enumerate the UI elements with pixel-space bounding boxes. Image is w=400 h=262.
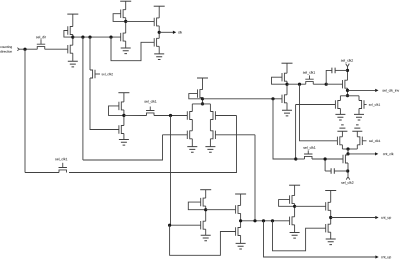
- wire vdd to P8: [286, 63, 288, 73]
- wire C2 to gate node: [324, 159, 326, 171]
- nmos N2: [121, 33, 126, 41]
- wire M5 to M6 gate node: [313, 83, 326, 85]
- pmos P7 latch right: [210, 111, 236, 119]
- wire P11 drain to node: [294, 204, 296, 217]
- wire keeper junction down: [273, 99, 296, 159]
- power vdd bar column5: [200, 189, 211, 191]
- wire P10 drain to row: [240, 213, 242, 227]
- output cnt_clk arrow: [348, 152, 394, 156]
- wire row down1 to cnt_up feedthrough: [264, 221, 376, 257]
- ground below MC1: [335, 114, 345, 120]
- power vdd bar column7: [289, 184, 300, 186]
- node col1 out: [71, 36, 74, 39]
- wire P3 drain to clk node: [158, 26, 160, 38]
- wire ground to MC4: [356, 131, 358, 137]
- wire vdd to P3: [158, 6, 160, 18]
- output cnt_up feedthrough arrow: [375, 255, 391, 259]
- ground below N2: [121, 48, 131, 54]
- wire N7 source to ground: [209, 139, 211, 147]
- wire bar to MC1: [339, 96, 341, 101]
- wire M8 to M7 gate: [312, 158, 343, 160]
- wire C1 right lead: [335, 69, 347, 71]
- wire P2 gate loop: [113, 14, 124, 22]
- node y159 left: [294, 157, 297, 160]
- label sel_clk1 of M4: [55, 158, 67, 161]
- label sel_clk2 of M2: [102, 73, 113, 76]
- wire P7 gate path: [69, 116, 237, 173]
- wire N1 source to ground: [72, 53, 74, 61]
- node net B left: [285, 83, 288, 86]
- node A junction 2: [88, 36, 91, 39]
- ground below N8: [282, 110, 292, 116]
- pmos P10: [236, 205, 241, 213]
- ground below N1: [68, 61, 78, 67]
- label sel_dir of M1: [36, 36, 46, 39]
- wire P6 drain to N6: [191, 120, 193, 131]
- wire P8 gate loop: [272, 77, 286, 84]
- wire P9 drain to node: [205, 206, 207, 221]
- node keeper net junction: [271, 97, 274, 100]
- pmos P3: [154, 18, 159, 26]
- wire M2 down to N4 gate: [90, 78, 119, 130]
- node M7 gate: [324, 157, 327, 160]
- label sel_clk1 of M3: [144, 100, 156, 103]
- output clk arrow: [159, 31, 182, 34]
- wire node A3 down to M2: [89, 37, 91, 70]
- wire MC1 source to ground: [339, 109, 341, 115]
- wire row down2 to N12 gate: [273, 221, 326, 251]
- pmos P2 diode-connected: [121, 10, 126, 18]
- output cnt_up arrow: [331, 216, 391, 220]
- node row down1: [262, 219, 265, 222]
- node row down2: [271, 219, 274, 222]
- power vdd bar column8: [325, 190, 336, 192]
- wire pair2 out down: [347, 149, 349, 155]
- pmos P4 diode-connected: [119, 102, 124, 110]
- node col7 out: [293, 205, 296, 208]
- node col5 out: [204, 208, 207, 211]
- node latch left gate: [169, 114, 172, 117]
- wire N6 source to ground: [191, 139, 193, 147]
- node counting direction junction: [23, 48, 26, 51]
- wire N3 source to ground: [158, 46, 160, 54]
- nmos MC2 dummy: [359, 100, 367, 108]
- nmos MC3 dummy: [337, 137, 342, 145]
- pmos P8 diode-connected: [282, 73, 287, 81]
- wire net B down to MC3 gate: [300, 84, 338, 141]
- pmos P1 diode-connected: [68, 26, 73, 34]
- ground below N12: [326, 239, 336, 245]
- wire N9 source to ground: [205, 229, 207, 235]
- net label counting direction line2: [0, 50, 12, 52]
- wire M3 to latch node: [154, 115, 187, 117]
- capacitor C2: [331, 168, 334, 174]
- node sel_clk2 top: [346, 69, 349, 72]
- nmos M7: [343, 155, 348, 163]
- wire node A2 down to M2: [82, 37, 84, 160]
- node clk out: [158, 31, 161, 34]
- wire col7 out to P12 gate: [295, 205, 326, 207]
- node keeper out: [201, 97, 204, 100]
- wire P4 gate loop: [109, 106, 123, 116]
- power vdd bar P8: [282, 62, 293, 64]
- ground above MC4 mirrored: [352, 125, 362, 131]
- node sel_clk_inv: [346, 89, 349, 92]
- wire node A horizontal: [73, 36, 121, 38]
- transistor M1 pass gate: [37, 39, 45, 49]
- wire latch node down rail: [170, 116, 172, 226]
- wire vdd to P2: [125, 1, 127, 10]
- nmos M6: [343, 80, 348, 88]
- wire latch top bar: [192, 103, 210, 105]
- wire P7 drain to N7: [209, 120, 211, 131]
- wire P11 gate loop: [279, 200, 294, 207]
- wire pair1 top bar: [340, 95, 359, 97]
- wire P4 drain to node: [123, 110, 125, 126]
- wire input to pass gate M1: [19, 48, 37, 50]
- ground below N4: [119, 140, 129, 146]
- wire vdd to P10: [240, 194, 242, 205]
- nmos N1: [68, 45, 73, 53]
- wire col4 out to M3: [124, 114, 147, 116]
- capacitor C1: [332, 68, 335, 74]
- node cnt_up: [329, 216, 332, 219]
- pin sel_clk2 bottom: [346, 177, 350, 180]
- wire MC1 gate rail: [295, 105, 297, 160]
- node row latch: [253, 219, 256, 222]
- nmos N3: [154, 38, 159, 46]
- wire col2 out to P3 gate: [126, 20, 155, 22]
- wire input node down-left rail: [24, 49, 26, 172]
- wire MC2 source to ground: [358, 109, 360, 115]
- label sel_clk1 of M8: [303, 146, 315, 149]
- label sel_clk2 top pin: [341, 59, 353, 62]
- wire pin to cap node: [347, 67, 349, 81]
- power vdd bar column6: [235, 193, 246, 195]
- power vdd bar keeper: [197, 77, 208, 79]
- wire output row: [241, 220, 290, 222]
- wire N11 source to ground: [294, 225, 296, 233]
- transistor M2 pass sel_clk2: [90, 70, 100, 78]
- node col2 out: [124, 20, 127, 23]
- wire C2 left lead: [325, 170, 331, 172]
- wire pair2 bottom bar: [342, 148, 357, 150]
- node row col6: [239, 219, 242, 222]
- wire keeper net to N8 gate: [203, 98, 283, 100]
- wire N4 source to ground: [123, 134, 125, 140]
- wire bar to MC2: [358, 96, 360, 101]
- ground below N7: [205, 147, 215, 153]
- ground below MC2: [354, 114, 364, 120]
- label sel_clk1 of MC2: [369, 103, 380, 106]
- wire vdd to P11: [294, 185, 296, 195]
- power vdd bar column1: [67, 13, 78, 15]
- node col4 out: [122, 114, 125, 117]
- node pair1 top: [346, 94, 349, 97]
- wire C2 right lead: [334, 170, 347, 172]
- wire C1 left lead: [326, 70, 332, 84]
- transistor M3 pass sel_clk1: [146, 107, 154, 116]
- wire M6 source to out: [347, 88, 349, 96]
- wire N2 source to ground: [125, 41, 127, 48]
- ground below N10: [236, 243, 246, 249]
- label sel_clk1 of M5: [303, 71, 315, 74]
- wire N6 gate path: [83, 135, 163, 160]
- wire N7 gate path: [254, 135, 256, 220]
- wire col5 out to P10 gate: [206, 209, 236, 211]
- ground below N11: [290, 233, 300, 239]
- wire vdd to P9: [205, 190, 207, 198]
- node pair2 out: [346, 147, 349, 150]
- node latch rail junction: [168, 224, 171, 227]
- node latch top: [201, 102, 204, 105]
- wire P8 drain to net B: [286, 81, 288, 95]
- nmos N8: [282, 95, 287, 103]
- transistor M5 pass sel_clk1: [305, 75, 313, 84]
- node cnt_clk: [346, 152, 349, 155]
- transistor M8 pass sel_clk1: [304, 150, 312, 159]
- nmos N10: [236, 227, 241, 235]
- ground below N3: [154, 54, 164, 60]
- node A junction 1: [81, 36, 84, 39]
- nmos N9: [170, 221, 206, 229]
- nmos N12: [326, 224, 331, 232]
- node cap C2 right: [346, 169, 349, 172]
- pmos P6 latch left: [187, 111, 192, 119]
- wire vdd to P4: [123, 93, 125, 102]
- wire vdd to P12: [330, 191, 332, 203]
- nmos MC4 dummy: [357, 137, 366, 145]
- ground above MC3 mirrored: [337, 125, 347, 131]
- label sel_clk1 of MC4: [369, 140, 380, 143]
- wire node A down to N3 gate: [111, 37, 154, 61]
- nmos N11: [290, 217, 295, 225]
- nmos N4: [119, 125, 124, 133]
- ground below N9: [201, 235, 211, 241]
- wire M4 to input rail: [25, 172, 59, 174]
- nmos MC1 dummy: [296, 100, 341, 108]
- wire bar to P7: [209, 104, 211, 112]
- wire P5 drain to latch bar: [202, 98, 204, 104]
- wire P12 drain to node: [330, 210, 332, 224]
- node net B mid: [298, 83, 301, 86]
- label sel_clk2 bottom pin: [341, 181, 353, 184]
- wire P9 gate loop: [188, 202, 204, 210]
- wire N12 source to ground: [330, 232, 332, 239]
- transistor M4 pass sel_clk1: [59, 163, 67, 173]
- node A junction 3: [109, 36, 112, 39]
- wire ground to MC3: [341, 131, 343, 137]
- wire latch rail to N10 gate: [170, 225, 236, 255]
- wire P1 gate loop: [64, 31, 72, 38]
- wire M1 to N1 gate: [45, 48, 68, 50]
- power vdd bar column4: [118, 92, 129, 94]
- pmos P5 keeper diode-connected: [198, 89, 203, 97]
- pin sel_clk2 top: [346, 64, 350, 67]
- input pin counting direction: [17, 48, 19, 51]
- wire P5 gate loop: [189, 94, 201, 99]
- wire MC3 drain to bar: [341, 145, 343, 149]
- wire M6 gate lead: [326, 83, 342, 85]
- wire N10 source to ground: [240, 236, 242, 244]
- nmos N7 latch right: [210, 131, 255, 139]
- ground below N6: [187, 147, 197, 153]
- wire P1 drain to node: [72, 35, 74, 46]
- output sel_clk_inv arrow: [348, 89, 400, 93]
- wire P2 drain to node: [125, 18, 127, 33]
- pmos P12: [326, 202, 331, 210]
- node M6 gate: [325, 83, 328, 86]
- wire node to M8: [296, 158, 305, 160]
- wire M7 source down: [347, 163, 349, 176]
- wire bar to P6: [191, 104, 193, 112]
- nmos N6 latch left: [163, 131, 193, 139]
- wire N8 source to ground: [286, 103, 288, 111]
- wire vdd to P5: [202, 78, 204, 90]
- power vdd bar column3: [154, 5, 165, 7]
- wire vdd to P1: [72, 14, 74, 26]
- pmos P11 diode-connected: [290, 195, 295, 203]
- wire net B to M5: [287, 83, 306, 85]
- pmos P9 diode-connected: [201, 198, 206, 206]
- power vdd bar column2: [120, 0, 131, 2]
- wire MC4 drain to bar: [356, 145, 358, 149]
- net label counting direction line1: [0, 46, 12, 49]
